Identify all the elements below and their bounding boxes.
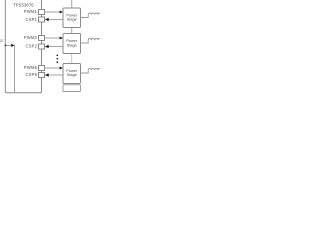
arrowhead into internal block [11,44,14,47]
power stage 3 block [63,64,81,84]
pin box CSP1 [39,17,45,22]
pin box PWM6 [39,66,45,71]
wire input net to internal block [5,44,11,46]
wire SW1 output [81,15,89,18]
svg-text:CSP6: CSP6 [25,72,37,77]
power stage 2 block [63,34,81,54]
svg-text:PWM1: PWM1 [24,9,38,14]
node VIN label fragment (cut off at left edge) [0,40,3,42]
ellipsis more phases [56,54,58,63]
svg-text:Stage: Stage [67,73,77,77]
svg-text:CSP1: CSP1 [25,17,37,22]
wire CSP6 [48,74,63,76]
wire CSP2 [48,46,63,48]
arrowhead CSP6 [45,73,49,76]
svg-text:PWM6: PWM6 [24,65,38,70]
wire feed between stage 1 and 2 [71,28,73,34]
power stage 2 text [66,39,77,47]
arrowhead CSP2 [45,45,49,48]
controller IC U1 TPS53676 outline [5,0,41,93]
inductor L3 [88,68,101,70]
junction dot on IC left edge [5,45,7,47]
pin box CSP6 [39,73,45,78]
wire PWM2 [45,37,61,39]
arrowhead PWM2 [60,36,63,39]
svg-text:CSP2: CSP2 [25,44,37,49]
internal block left edge [14,44,16,92]
pin box PWM1 [39,10,45,15]
wire SW2 output [81,40,89,43]
wire feed between stage 2 and 3 [71,54,73,64]
arrowhead PWM1 [60,10,63,13]
wire SW3 output [81,70,89,73]
power stage 3 text [66,69,77,77]
inductor L1 [88,13,101,15]
wire PWM1 [45,11,61,13]
wire PWM6 [45,67,61,69]
arrowhead PWM6 [60,66,63,69]
wire CSP1 [48,19,63,21]
power stage 1 block [63,8,81,28]
svg-text:Stage: Stage [67,18,77,22]
pin box PWM2 [39,36,45,41]
svg-text:Stage: Stage [67,43,77,47]
svg-text:PWM2: PWM2 [24,35,38,40]
svg-text:TPS53676: TPS53676 [13,2,34,7]
arrowhead CSP1 [45,18,49,21]
pin box CSP2 [39,44,45,49]
inductor L2 [88,38,101,40]
output block below stage 3 [63,85,81,92]
power stage 1 text [66,13,77,21]
wire VIN feed stage 1 [71,0,73,8]
